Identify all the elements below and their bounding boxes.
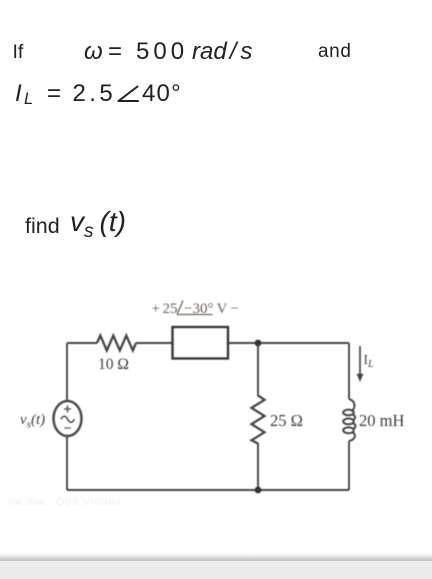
svg-text:IL: IL: [364, 352, 375, 370]
svg-text:20 mH: 20 mH: [359, 411, 404, 430]
svg-text:25: 25: [163, 301, 178, 317]
svg-text:−: −: [231, 301, 239, 317]
svg-text:nw.mw, ,O08.Vt00uv: nw.mw, ,O08.Vt00uv: [8, 496, 122, 508]
svg-text:10 Ω: 10 Ω: [98, 356, 129, 373]
svg-text:25 Ω: 25 Ω: [270, 411, 303, 430]
svg-text:+: +: [152, 301, 160, 317]
svg-text:V: V: [217, 301, 228, 317]
svg-text:vs(t): vs(t): [20, 412, 45, 431]
